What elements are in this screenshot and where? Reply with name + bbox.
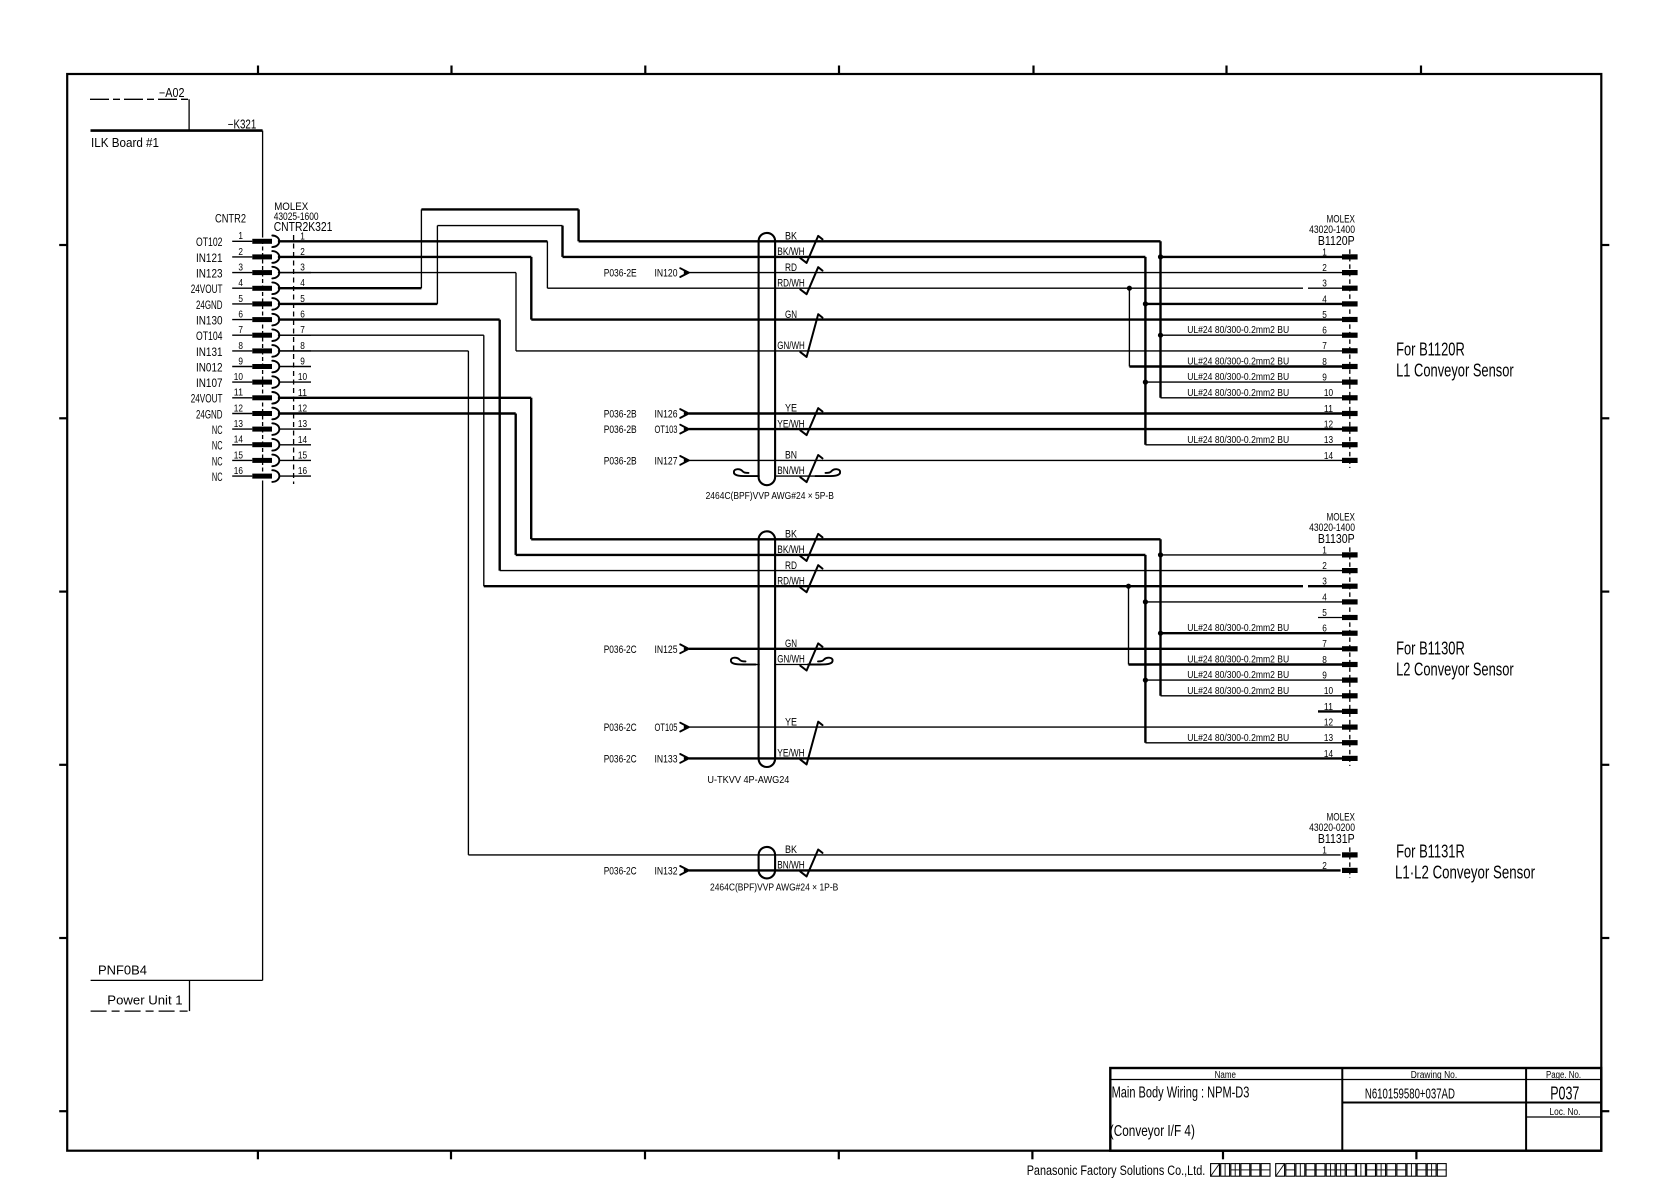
svg-text:5: 5 xyxy=(238,294,243,305)
svg-text:2464C(BPF)VVP AWG#24 × 1P-B: 2464C(BPF)VVP AWG#24 × 1P-B xyxy=(710,882,838,893)
svg-text:2: 2 xyxy=(1322,263,1327,274)
svg-text:Page. No.: Page. No. xyxy=(1546,1070,1581,1081)
svg-text:Panasonic Factory Solutions Co: Panasonic Factory Solutions Co.,Ltd. xyxy=(1027,1163,1206,1178)
svg-text:IN127: IN127 xyxy=(655,455,678,467)
svg-text:P037: P037 xyxy=(1550,1083,1579,1104)
svg-text:BK: BK xyxy=(785,529,797,541)
svg-text:P036-2E: P036-2E xyxy=(604,268,637,280)
svg-text:RD: RD xyxy=(785,262,797,274)
svg-text:13: 13 xyxy=(298,419,307,430)
svg-text:14: 14 xyxy=(298,435,307,446)
svg-text:5: 5 xyxy=(1322,608,1327,619)
svg-text:24GND: 24GND xyxy=(196,407,223,421)
svg-text:14: 14 xyxy=(1324,451,1333,462)
svg-text:UL#24 80/300-0.2mm2 BU: UL#24 80/300-0.2mm2 BU xyxy=(1187,655,1289,666)
svg-text:NC: NC xyxy=(212,439,223,453)
svg-text:4: 4 xyxy=(238,278,243,289)
svg-text:YE: YE xyxy=(785,403,797,415)
svg-text:IN123: IN123 xyxy=(196,267,223,281)
svg-text:2: 2 xyxy=(1322,861,1327,872)
svg-text:YE/WH: YE/WH xyxy=(777,418,805,430)
svg-text:BK: BK xyxy=(785,844,797,856)
svg-text:BK: BK xyxy=(785,231,797,243)
svg-text:8: 8 xyxy=(238,341,243,352)
svg-text:8: 8 xyxy=(1322,655,1327,666)
svg-text:UL#24 80/300-0.2mm2 BU: UL#24 80/300-0.2mm2 BU xyxy=(1187,623,1289,634)
svg-text:IN120: IN120 xyxy=(655,268,678,280)
svg-text:1: 1 xyxy=(238,231,243,242)
svg-text:OT102: OT102 xyxy=(196,235,223,249)
svg-text:3: 3 xyxy=(1322,279,1327,290)
svg-text:7: 7 xyxy=(1322,341,1327,352)
svg-text:P036-2C: P036-2C xyxy=(604,753,637,765)
svg-text:B1120P: B1120P xyxy=(1318,233,1355,248)
svg-text:15: 15 xyxy=(234,450,243,461)
svg-text:OT105: OT105 xyxy=(655,722,678,734)
svg-text:NC: NC xyxy=(212,470,223,484)
svg-text:Name: Name xyxy=(1215,1070,1237,1081)
svg-text:Power Unit 1: Power Unit 1 xyxy=(107,993,182,1008)
svg-text:BN: BN xyxy=(785,450,797,462)
svg-text:GN: GN xyxy=(785,309,797,321)
svg-text:IN125: IN125 xyxy=(655,644,678,656)
svg-text:IN126: IN126 xyxy=(655,409,678,421)
svg-text:L2 Conveyor Sensor: L2 Conveyor Sensor xyxy=(1396,659,1514,679)
svg-text:L1 Conveyor Sensor: L1 Conveyor Sensor xyxy=(1396,360,1514,380)
svg-text:10: 10 xyxy=(1324,388,1333,399)
svg-text:−A02: −A02 xyxy=(159,86,185,100)
svg-text:(Conveyor I/F 4): (Conveyor I/F 4) xyxy=(1110,1123,1195,1140)
svg-text:UL#24 80/300-0.2mm2 BU: UL#24 80/300-0.2mm2 BU xyxy=(1187,372,1289,383)
svg-text:IN107: IN107 xyxy=(196,376,223,390)
svg-text:11: 11 xyxy=(234,388,243,399)
svg-text:10: 10 xyxy=(1324,686,1333,697)
svg-text:OT104: OT104 xyxy=(196,329,223,343)
svg-text:1: 1 xyxy=(1322,247,1327,258)
svg-text:P036-2C: P036-2C xyxy=(604,644,637,656)
svg-text:6: 6 xyxy=(1322,326,1327,337)
svg-text:For B1130R: For B1130R xyxy=(1396,638,1465,658)
svg-text:YE/WH: YE/WH xyxy=(777,748,805,760)
svg-text:BK/WH: BK/WH xyxy=(777,544,805,556)
svg-text:OT103: OT103 xyxy=(655,424,678,436)
svg-text:P036-2B: P036-2B xyxy=(604,424,637,436)
svg-text:BN/WH: BN/WH xyxy=(777,465,805,477)
svg-text:9: 9 xyxy=(1322,373,1327,384)
svg-text:24VOUT: 24VOUT xyxy=(191,282,223,296)
svg-text:L1·L2 Conveyor Sensor: L1·L2 Conveyor Sensor xyxy=(1395,862,1535,882)
svg-text:P036-2C: P036-2C xyxy=(604,722,637,734)
svg-text:6: 6 xyxy=(1322,624,1327,635)
svg-text:BN/WH: BN/WH xyxy=(777,860,805,872)
svg-text:2: 2 xyxy=(238,247,243,258)
svg-text:For B1120R: For B1120R xyxy=(1396,339,1465,359)
svg-text:12: 12 xyxy=(234,403,243,414)
svg-text:CNTR2: CNTR2 xyxy=(215,211,246,225)
svg-text:7: 7 xyxy=(1322,639,1327,650)
svg-text:For B1131R: For B1131R xyxy=(1396,842,1465,862)
svg-text:1: 1 xyxy=(1322,845,1327,856)
svg-text:RD: RD xyxy=(785,560,797,572)
svg-text:16: 16 xyxy=(234,466,243,477)
svg-text:7: 7 xyxy=(238,325,243,336)
svg-text:4: 4 xyxy=(1322,294,1327,305)
svg-text:RD/WH: RD/WH xyxy=(777,277,805,289)
svg-text:UL#24 80/300-0.2mm2 BU: UL#24 80/300-0.2mm2 BU xyxy=(1187,357,1289,368)
svg-text:9: 9 xyxy=(1322,671,1327,682)
svg-text:13: 13 xyxy=(1324,733,1333,744)
svg-text:3: 3 xyxy=(238,263,243,274)
svg-text:IN132: IN132 xyxy=(655,865,678,877)
svg-text:4: 4 xyxy=(1322,592,1327,603)
svg-text:IN121: IN121 xyxy=(196,251,223,265)
svg-text:UL#24 80/300-0.2mm2 BU: UL#24 80/300-0.2mm2 BU xyxy=(1187,435,1289,446)
svg-text:5: 5 xyxy=(1322,310,1327,321)
svg-text:2464C(BPF)VVP AWG#24 × 5P-B: 2464C(BPF)VVP AWG#24 × 5P-B xyxy=(706,491,834,502)
svg-text:2: 2 xyxy=(1322,561,1327,572)
svg-text:13: 13 xyxy=(1324,435,1333,446)
svg-text:GN/WH: GN/WH xyxy=(777,654,805,666)
svg-text:UL#24 80/300-0.2mm2 BU: UL#24 80/300-0.2mm2 BU xyxy=(1187,733,1289,744)
svg-text:N610159580+037AD: N610159580+037AD xyxy=(1365,1087,1455,1103)
svg-text:RD/WH: RD/WH xyxy=(777,576,805,588)
svg-text:NC: NC xyxy=(212,454,223,468)
svg-text:Main Body Wiring : NPM-D3: Main Body Wiring : NPM-D3 xyxy=(1112,1084,1250,1101)
svg-text:15: 15 xyxy=(298,450,307,461)
svg-text:IN130: IN130 xyxy=(196,313,223,327)
svg-text:IN131: IN131 xyxy=(196,345,223,359)
svg-text:11: 11 xyxy=(1324,404,1333,415)
svg-text:PNF0B4: PNF0B4 xyxy=(98,963,147,978)
svg-text:P036-2B: P036-2B xyxy=(604,409,637,421)
svg-text:IN012: IN012 xyxy=(196,360,223,374)
svg-text:NC: NC xyxy=(212,423,223,437)
svg-text:13: 13 xyxy=(234,419,243,430)
svg-text:12: 12 xyxy=(1324,420,1333,431)
svg-text:9: 9 xyxy=(238,356,243,367)
svg-text:3: 3 xyxy=(1322,577,1327,588)
svg-text:GN/WH: GN/WH xyxy=(777,340,805,352)
svg-text:GN: GN xyxy=(785,638,797,650)
svg-text:P036-2B: P036-2B xyxy=(604,455,637,467)
svg-text:B1130P: B1130P xyxy=(1318,531,1355,546)
svg-text:10: 10 xyxy=(234,372,243,383)
svg-text:10: 10 xyxy=(298,372,307,383)
svg-text:UL#24 80/300-0.2mm2 BU: UL#24 80/300-0.2mm2 BU xyxy=(1187,686,1289,697)
svg-text:U-TKVV 4P-AWG24: U-TKVV 4P-AWG24 xyxy=(707,775,789,786)
svg-text:8: 8 xyxy=(1322,357,1327,368)
svg-text:9: 9 xyxy=(300,357,305,368)
svg-text:BK/WH: BK/WH xyxy=(777,246,805,258)
svg-text:P036-2C: P036-2C xyxy=(604,865,637,877)
svg-text:1: 1 xyxy=(1322,545,1327,556)
svg-text:24VOUT: 24VOUT xyxy=(191,392,223,406)
svg-text:B1131P: B1131P xyxy=(1318,831,1355,846)
svg-text:16: 16 xyxy=(298,466,307,477)
svg-text:ILK Board #1: ILK Board #1 xyxy=(91,136,159,150)
svg-text:UL#24 80/300-0.2mm2 BU: UL#24 80/300-0.2mm2 BU xyxy=(1187,670,1289,681)
svg-text:11: 11 xyxy=(1324,702,1333,713)
svg-text:YE: YE xyxy=(785,716,797,728)
svg-text:14: 14 xyxy=(1324,749,1333,760)
svg-text:6: 6 xyxy=(238,309,243,320)
svg-text:24GND: 24GND xyxy=(196,298,223,312)
svg-text:UL#24 80/300-0.2mm2 BU: UL#24 80/300-0.2mm2 BU xyxy=(1187,388,1289,399)
svg-text:14: 14 xyxy=(234,435,243,446)
svg-text:UL#24 80/300-0.2mm2 BU: UL#24 80/300-0.2mm2 BU xyxy=(1187,325,1289,336)
svg-text:12: 12 xyxy=(1324,718,1333,729)
svg-text:Loc. No.: Loc. No. xyxy=(1550,1107,1581,1118)
svg-text:IN133: IN133 xyxy=(655,753,678,765)
svg-text:Drawing No.: Drawing No. xyxy=(1411,1070,1457,1081)
